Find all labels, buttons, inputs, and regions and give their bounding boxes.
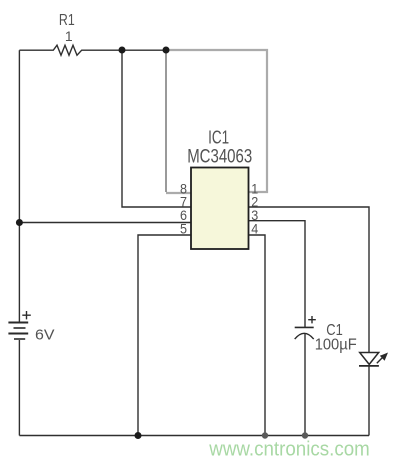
svg-text:MC34063: MC34063 bbox=[187, 147, 252, 168]
svg-text:100µF: 100µF bbox=[315, 336, 357, 353]
svg-text:1: 1 bbox=[65, 28, 73, 44]
svg-text:R1: R1 bbox=[59, 12, 75, 29]
svg-text:www.cntronics.com: www.cntronics.com bbox=[208, 439, 369, 461]
svg-text:4: 4 bbox=[251, 221, 258, 237]
svg-text:6V: 6V bbox=[35, 326, 55, 343]
svg-text:5: 5 bbox=[180, 221, 187, 237]
svg-text:IC1: IC1 bbox=[208, 128, 229, 148]
